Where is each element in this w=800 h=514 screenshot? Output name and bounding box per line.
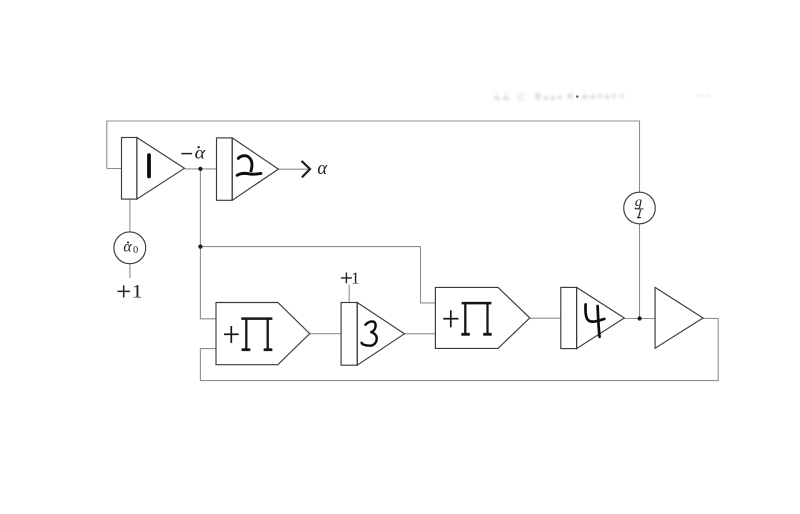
svg-text:α: α [123,239,132,256]
svg-text:1: 1 [132,282,143,303]
summing multiplier symbol +Pi in M1 [224,319,272,350]
wire integrator 1 input stub [107,168,122,170]
wire source circle to +1 terminal [129,264,131,278]
wire multiplier M1 output to integrator 3 [310,333,341,335]
handwritten label 1 in integrator U1 [147,155,151,176]
integrator U1 body [122,138,185,200]
label g over l inside coefficient circle [635,194,644,218]
integrator U3 body [341,303,404,366]
wire top feedback from g/l branch to integrator 1 input [107,121,640,192]
wire integrator 1 initial-condition to source circle [129,199,131,232]
integrator U4 body [561,287,625,348]
wire vertical branch from node A down to multiplier M1 input 1 [200,169,216,319]
wire integrator 4 output to inverter [624,318,655,320]
handwritten label 2 in integrator U2 [237,156,261,176]
node B junction dot [198,245,202,249]
svg-text:0: 0 [133,245,138,256]
multiplier M1 pentagon [216,303,310,365]
handwritten label 4 in integrator U4 [585,304,604,337]
node C junction dot [638,316,642,320]
svg-text:α: α [317,159,328,179]
wire integrator 2 output [278,168,308,170]
wire integrator 3 output to multiplier M2 [404,333,435,335]
label +1 under source circle [118,282,143,303]
label -alpha-dot on node A [181,143,206,163]
wire branch from node B to multiplier M2 input 1 [200,247,435,303]
source circle a-dot-0 [114,232,146,264]
wire g/l coefficient branch down to node C [639,224,641,319]
node A junction dot [198,167,202,171]
wire multiplier M2 output to integrator 4 [530,317,561,319]
label +1 above integrator U3 [341,269,360,288]
handwritten label 3 in integrator U3 [362,321,377,345]
svg-text:g: g [635,194,643,209]
svg-text:α: α [195,143,206,163]
output arrow head [302,161,310,178]
integrator U2 body [217,138,279,200]
wire inverter output feedback loop to multiplier M1 input 2 [200,318,718,380]
coefficient circle g/l [624,192,656,224]
wire integrator 1 output to integrator 2 [184,168,216,170]
multiplier M2 pentagon [435,287,529,348]
summing multiplier symbol +Pi in M2 [443,303,492,334]
label alpha-dot-0 inside source circle [123,239,138,257]
dark speck in ghost text [576,95,578,97]
inverter amplifier body [655,287,703,348]
faint ghost text artifact top [494,91,711,101]
wire +1 stub above integrator 3 [348,285,350,303]
svg-text:1: 1 [351,269,359,288]
